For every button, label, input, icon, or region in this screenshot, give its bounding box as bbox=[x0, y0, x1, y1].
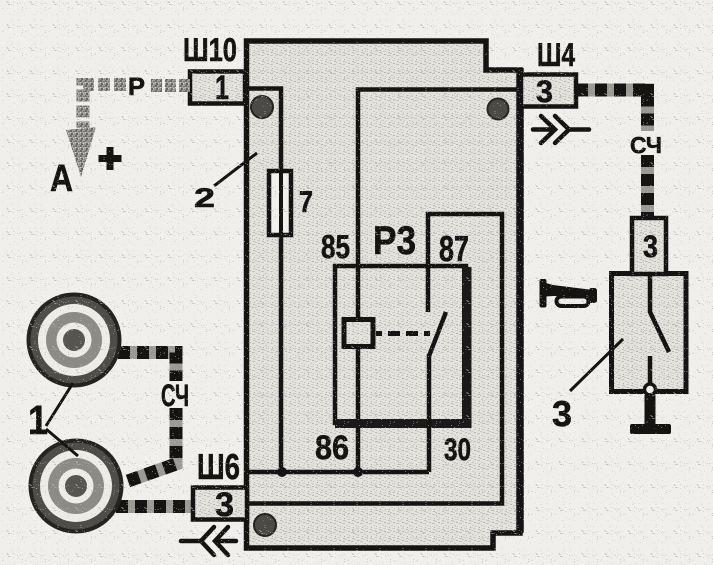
wire Р from Ш10 to battery bbox=[151, 79, 190, 92]
horn button terminal circle bbox=[645, 384, 656, 395]
horn button switch upper line bbox=[650, 274, 669, 352]
relay pin 30 wire bbox=[427, 354, 432, 472]
relay box shadow bottom bbox=[335, 419, 472, 428]
connector Ш10 pin 1 box bbox=[190, 72, 245, 104]
wire СЧ horn1 to horn2 bbox=[118, 353, 176, 482]
wire: Ш4 pin3 across to relay coil (pin 85/86 vertical) bbox=[358, 90, 518, 472]
ground bar bbox=[630, 424, 671, 434]
relay coil-contact dashed link bbox=[376, 331, 430, 336]
relay contact blade bbox=[429, 312, 446, 356]
ground stem bbox=[645, 395, 656, 425]
wire СЧ horn2 to Ш6 bbox=[116, 500, 193, 513]
relay K box bbox=[335, 266, 466, 423]
wire: Ш6 pin3 up and around to relay pin 87 bbox=[249, 214, 502, 504]
relay box shadow right bbox=[462, 267, 472, 427]
fuse 7 body bbox=[269, 171, 291, 235]
connector Ш6 pin 3 box bbox=[193, 488, 247, 520]
pointer lines 1 bbox=[46, 383, 78, 456]
screw bottom-left bbox=[254, 514, 276, 536]
fuse wire through bbox=[279, 173, 283, 233]
arrow out (right, below Ш4) bbox=[533, 116, 589, 143]
horn 2 (lower) bbox=[29, 439, 124, 534]
horn button switch lower line bbox=[648, 356, 653, 384]
horn button connector 3 box bbox=[632, 218, 666, 274]
horn 1 (upper) bbox=[27, 293, 122, 388]
junction dot at pin86 / bus bbox=[353, 467, 363, 477]
relay coil square bbox=[344, 320, 373, 347]
right edge thickening bbox=[516, 68, 524, 533]
horn trumpet icon bbox=[540, 279, 598, 308]
mounting block body (outline) bbox=[247, 41, 521, 548]
wire: Ш10 pin1 to fuse to bottom bus bbox=[249, 89, 281, 472]
horn button body bbox=[612, 274, 687, 392]
screw top-left bbox=[251, 96, 273, 118]
junction dot at fuse wire / bus bbox=[277, 467, 287, 477]
arrow out (left, below Ш6) bbox=[181, 527, 236, 555]
screw top-right bbox=[488, 99, 509, 120]
pointer line 3 bbox=[570, 339, 623, 391]
pointer line 2 bbox=[214, 153, 257, 186]
connector Ш4 pin 3 box bbox=[521, 75, 576, 107]
plus sign bbox=[107, 147, 114, 170]
wire: bottom bus bbox=[249, 470, 429, 475]
wire СЧ from Ш4 to horn button connector bbox=[576, 90, 648, 218]
battery arrowhead bbox=[66, 127, 96, 177]
